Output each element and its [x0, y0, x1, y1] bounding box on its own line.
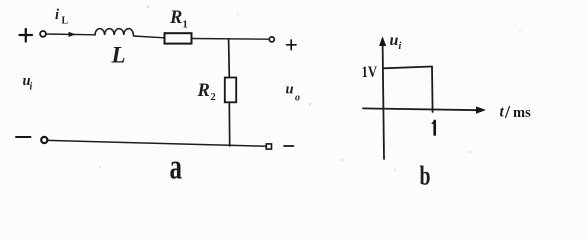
resistor R2 (vertical box): [225, 78, 236, 103]
svg-text:ms: ms: [513, 105, 531, 121]
svg-text:o: o: [295, 93, 300, 104]
terminal minus sign (input, bottom-left): [16, 136, 31, 138]
wire: R1 to top-right terminal: [192, 38, 270, 41]
svg-text:1V: 1V: [362, 64, 378, 81]
svg-text:u: u: [286, 82, 294, 98]
graph: vertical axis u_i: [383, 42, 384, 159]
svg-text:i: i: [30, 82, 33, 93]
terminal minus sign (output, bottom-right): [284, 145, 294, 147]
node junction (top of R2 branch): [228, 39, 231, 78]
svg-text:/: /: [504, 102, 511, 122]
output terminal square bottom-right: [266, 144, 271, 149]
svg-text:R: R: [169, 8, 182, 28]
wire: bottom rail: [48, 140, 267, 146]
inductor L (coil): [95, 29, 133, 35]
svg-text:a: a: [170, 147, 183, 187]
terminal plus sign (output, top-right): [287, 40, 297, 50]
svg-text:R: R: [197, 81, 210, 101]
svg-text:i: i: [399, 41, 402, 52]
svg-text:L: L: [62, 16, 69, 27]
input terminal circle top-left: [40, 31, 46, 37]
input terminal circle bottom-left: [41, 137, 47, 143]
svg-text:1: 1: [183, 20, 188, 31]
svg-text:t: t: [500, 104, 505, 121]
graph: horizontal axis t: [363, 108, 479, 110]
svg-text:b: b: [420, 161, 431, 190]
svg-text:u: u: [390, 32, 399, 49]
pulse waveform: falling edge at t=1: [431, 67, 434, 113]
wire: inductor to resistor R1: [133, 36, 164, 38]
pulse waveform: top of 1V pulse: [384, 67, 433, 69]
terminal plus sign (input, top-left): [20, 29, 33, 42]
wire: top-left terminal to inductor: [46, 33, 95, 36]
svg-text:2: 2: [211, 92, 216, 103]
output terminal circle top-right: [269, 37, 274, 42]
current arrow i_L on wire: [69, 32, 76, 37]
graph: vertical axis arrowhead: [379, 36, 386, 46]
svg-text:i: i: [55, 7, 59, 23]
graph: horizontal axis arrowhead: [476, 106, 486, 113]
resistor R1 (horizontal box): [165, 33, 192, 43]
graph: tick label 1 on t axis: [432, 121, 435, 135]
svg-text:L: L: [111, 43, 126, 68]
wire: R2 bottom to bottom rail: [228, 102, 230, 146]
faint scan speckles: [99, 6, 521, 171]
